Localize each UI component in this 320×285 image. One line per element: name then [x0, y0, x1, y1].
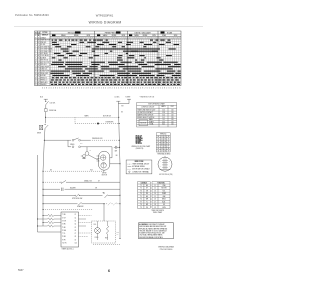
timer block [61, 212, 79, 247]
svg-text:T5: T5 [140, 196, 142, 198]
svg-text:Publication No. 5995418493: Publication No. 5995418493 [15, 13, 49, 17]
timer terminal table right [152, 182, 170, 209]
svg-text:CAP.: CAP. [163, 195, 167, 198]
svg-text:7: 7 [88, 38, 89, 40]
svg-text:9.8: 9.8 [163, 119, 165, 121]
svg-text:WIRING DIAGRAM: WIRING DIAGRAM [158, 245, 174, 248]
svg-text:6: 6 [136, 88, 137, 90]
svg-text:4: 4 [59, 38, 60, 40]
svg-text:WH: WH [121, 106, 123, 108]
svg-text:5: 5 [35, 49, 36, 51]
timer cam closure bars [50, 40, 181, 85]
svg-text:WIRE CODE: WIRE CODE [135, 161, 144, 163]
svg-text:B: B [38, 75, 39, 77]
svg-text:T2 GY: T2 GY [62, 217, 66, 219]
svg-text:2: 2 [166, 88, 167, 90]
svg-text:27: 27 [164, 148, 166, 150]
svg-text:0: 0 [160, 38, 161, 40]
svg-text:GY: GY [146, 188, 148, 190]
svg-text:16: 16 [161, 148, 163, 150]
svg-text:SPIN: SPIN [162, 207, 165, 209]
svg-text:5: 5 [62, 38, 63, 40]
svg-text:B: B [38, 84, 39, 86]
svg-text:T1: T1 [140, 185, 142, 187]
svg-text:2: 2 [112, 88, 113, 90]
svg-text:SPEED SELECT SWITCH: SPEED SELECT SWITCH [137, 117, 154, 119]
svg-text:4: 4 [129, 88, 130, 90]
svg-text:WTR TEMP COLD: WTR TEMP COLD [40, 51, 51, 53]
svg-text:WIRING COLOR CODE CHART: WIRING COLOR CODE CHART [132, 145, 151, 148]
svg-text:6: 6 [179, 88, 180, 90]
svg-text:B: B [38, 66, 39, 68]
svg-text:SPIN: SPIN [87, 35, 91, 37]
svg-text:FUNCTION: FUNCTION [158, 183, 165, 185]
svg-text:6: 6 [147, 88, 148, 90]
svg-text:WTR TEMP HOT: WTR TEMP HOT [40, 46, 51, 48]
svg-text:14: 14 [154, 193, 156, 195]
svg-text:1: 1 [75, 38, 76, 40]
svg-text:C1: C1 [75, 214, 77, 216]
pressure switch line [44, 139, 71, 141]
svg-text:BK: BK [146, 196, 148, 198]
motor plug circle [158, 157, 172, 171]
svg-text:22: 22 [164, 136, 166, 138]
svg-text:12: 12 [35, 64, 37, 66]
svg-text:68: 68 [164, 151, 166, 153]
svg-text:1: 1 [35, 40, 36, 42]
svg-text:WASH: WASH [61, 34, 65, 37]
svg-text:PRESSURE SW.: PRESSURE SW. [92, 138, 103, 140]
timer motor line [74, 117, 76, 123]
svg-text:T7: T7 [140, 201, 142, 203]
svg-text:TERM. BD.: TERM. BD. [160, 134, 167, 136]
svg-text:RINSE: RINSE [74, 35, 79, 37]
svg-text:26.4: 26.4 [162, 121, 165, 123]
svg-text:2: 2 [35, 42, 36, 44]
svg-text:RINSE: RINSE [143, 35, 148, 37]
svg-text:4: 4 [96, 88, 97, 90]
svg-text:C10: C10 [75, 243, 78, 245]
svg-text:TIMER MOTOR: TIMER MOTOR [40, 40, 50, 42]
svg-text:SPD: SPD [80, 143, 83, 145]
svg-text:* TIMER MOTOR ON: * TIMER MOTOR ON [139, 96, 155, 98]
cycle header labels [35, 31, 173, 39]
svg-text:4: 4 [64, 88, 65, 90]
svg-text:TIMER: TIMER [84, 115, 88, 117]
svg-text:RINSE: RINSE [112, 35, 117, 37]
motor lead terminals [97, 156, 100, 161]
svg-text:SPIN SOL.: SPIN SOL. [40, 64, 47, 66]
svg-text:T8 BR: T8 BR [62, 236, 66, 238]
svg-text:CONTACT: CONTACT [141, 182, 148, 185]
svg-text:9: 9 [92, 38, 93, 40]
svg-text:120: 120 [171, 119, 174, 121]
svg-text:T9 PK: T9 PK [62, 239, 66, 241]
svg-text:97: 97 [168, 146, 170, 148]
svg-text:T3: T3 [140, 190, 142, 192]
wire row 6 (aux dashed) [43, 209, 93, 211]
svg-text:BK: BK [121, 112, 123, 114]
svg-text:AL WARNING: DISCONNECT POWER A: AL WARNING: DISCONNECT POWER AT [139, 223, 164, 226]
svg-text:2: 2 [77, 38, 78, 40]
svg-text:0: 0 [51, 88, 52, 90]
svg-text:15.0: 15.0 [162, 110, 165, 112]
svg-text:0: 0 [94, 38, 95, 40]
svg-text:63: 63 [164, 139, 166, 141]
svg-text:D: D [38, 71, 39, 73]
svg-text:11: 11 [154, 185, 156, 187]
svg-text:4: 4 [169, 38, 170, 40]
svg-text:T4: T4 [140, 193, 142, 195]
svg-text:AUX.: AUX. [162, 200, 166, 203]
svg-text:CYCLE: CYCLE [42, 32, 47, 34]
svg-text:T6 WH: T6 WH [62, 230, 66, 232]
svg-text:2: 2 [55, 38, 56, 40]
terminal board table [156, 133, 170, 152]
svg-text:6: 6 [86, 38, 87, 40]
svg-text:SPIN: SPIN [121, 35, 125, 37]
svg-text:2: 2 [68, 88, 69, 90]
svg-text:T9: T9 [140, 207, 142, 209]
svg-text:C3: C3 [75, 221, 77, 223]
svg-text:SPEED: SPEED [70, 144, 74, 146]
svg-text:18: 18 [154, 204, 156, 206]
timer contact dashed line (top) [46, 116, 119, 118]
svg-text:75: 75 [161, 146, 163, 148]
lid switch [46, 101, 49, 104]
svg-text:3: 3 [57, 38, 58, 40]
svg-text:CONTROL CIRCUIT: CONTROL CIRCUIT [141, 107, 154, 109]
svg-text:8: 8 [77, 88, 78, 90]
svg-text:4: 4 [103, 38, 104, 40]
switch rating chart table [137, 103, 177, 128]
svg-text:19: 19 [35, 80, 37, 82]
svg-text:5: 5 [171, 38, 172, 40]
svg-text:6: 6 [151, 38, 152, 40]
svg-text:6: 6 [169, 88, 170, 90]
svg-text:18: 18 [35, 77, 37, 79]
svg-text:14: 14 [35, 69, 37, 71]
svg-text:B: B [38, 42, 39, 44]
svg-text:C: C [38, 51, 39, 53]
svg-text:SPIN: SPIN [174, 35, 178, 37]
svg-text:19: 19 [154, 207, 156, 209]
svg-text:OR: OR [95, 187, 97, 189]
svg-text:WIRING DIAGRAM: WIRING DIAGRAM [89, 20, 122, 24]
svg-text:5: 5 [127, 38, 128, 40]
svg-text:T6: T6 [140, 199, 142, 201]
svg-text:2: 2 [142, 38, 143, 40]
svg-text:D: D [38, 53, 39, 55]
svg-text:12: 12 [154, 188, 156, 190]
svg-text:SOAK: SOAK [167, 31, 173, 34]
svg-text:0: 0 [116, 88, 117, 90]
svg-text:(SEE NOTE): (SEE NOTE) [136, 148, 144, 150]
svg-text:MOTOR CW: MOTOR CW [40, 60, 48, 62]
svg-text:FUSE 10A: FUSE 10A [49, 109, 56, 112]
svg-text:36.2: 36.2 [162, 123, 165, 125]
svg-text:4: 4 [147, 38, 148, 40]
svg-text:WH WHITE: WH WHITE [136, 143, 143, 145]
svg-text:8: 8 [131, 88, 132, 90]
svg-text:WL: WL [103, 193, 105, 195]
svg-text:8: 8 [164, 88, 165, 90]
svg-text:N WHT: N WHT [126, 97, 131, 99]
svg-text:2: 2 [177, 88, 178, 90]
svg-text:6: 6 [81, 88, 82, 90]
svg-text:MOTOR: MOTOR [102, 174, 107, 176]
svg-text:0: 0 [94, 88, 95, 90]
svg-text:9: 9 [136, 38, 137, 40]
circuit breaker on L1 rail [45, 125, 48, 128]
svg-text:9: 9 [114, 38, 115, 40]
svg-text:8: 8 [90, 38, 91, 40]
svg-text:10.4: 10.4 [162, 115, 165, 117]
svg-text:0: 0 [138, 38, 139, 40]
svg-text:D: D [38, 62, 39, 64]
svg-text:MOTOR: MOTOR [162, 188, 167, 190]
svg-text:74: 74 [168, 139, 170, 141]
svg-text:TIMER (60 INC.): TIMER (60 INC.) [62, 249, 74, 251]
svg-text:3: 3 [145, 38, 146, 40]
svg-text:5: 5 [149, 38, 150, 40]
svg-text:LID SW.: LID SW. [40, 44, 46, 46]
svg-text:TIMER SEQUENCE: TIMER SEQUENCE [151, 210, 164, 212]
valve bottom wire [93, 243, 120, 245]
svg-text:BRKR: BRKR [37, 132, 41, 134]
svg-text:3: 3 [123, 38, 124, 40]
svg-text:3: 3 [160, 166, 161, 168]
svg-text:RINSE DISP.: RINSE DISP. [40, 73, 48, 75]
svg-text:T2: T2 [140, 188, 142, 190]
warning box [139, 223, 174, 239]
sub header labels [61, 34, 177, 37]
svg-text:5: 5 [105, 38, 106, 40]
svg-text:2: 2 [155, 88, 156, 90]
wire row 4 (water level switch) [43, 194, 120, 196]
svg-text:0: 0 [73, 38, 74, 40]
wire row 2 (unbalance switch) [43, 181, 61, 183]
svg-text:15: 15 [154, 196, 156, 198]
svg-text:SOAK SW.: SOAK SW. [77, 205, 84, 208]
svg-text:4: 4 [75, 88, 76, 90]
svg-text:9: 9 [35, 57, 36, 59]
svg-text:M.: M. [38, 35, 40, 37]
svg-text:BUZZER: BUZZER [40, 75, 45, 77]
svg-text:120: 120 [171, 123, 174, 125]
chart fine vertical grid [52, 37, 179, 86]
svg-text:WH: WH [146, 199, 148, 201]
svg-text:SPIN: SPIN [152, 35, 156, 37]
svg-text:2: 2 [57, 88, 58, 90]
svg-text:BK: BK [50, 169, 52, 171]
svg-text:CAP: CAP [115, 149, 118, 152]
svg-text:4: 4 [125, 38, 126, 40]
svg-text:OR: OR [146, 190, 148, 192]
svg-text:04: 04 [164, 141, 166, 143]
svg-text:120: 120 [171, 112, 174, 114]
schematic wires and rails [38, 99, 132, 238]
svg-text:BR: BR [146, 204, 148, 206]
svg-text:C: C [38, 69, 39, 71]
svg-text:IN: IN [35, 32, 36, 34]
svg-text:8: 8 [134, 38, 135, 40]
capacitor on N rail [114, 146, 120, 148]
svg-text:1: 1 [162, 38, 163, 40]
svg-text:N: N [35, 37, 36, 39]
svg-text:2: 2 [99, 38, 100, 40]
svg-text:4: 4 [151, 88, 152, 90]
hot solenoid coil [107, 226, 109, 235]
svg-text:6: 6 [108, 38, 109, 40]
wire row 5 (valve feed) [43, 204, 104, 221]
svg-text:4: 4 [118, 88, 119, 90]
svg-text:7: 7 [35, 53, 36, 55]
drive motor [99, 151, 110, 170]
svg-text:T1 BU: T1 BU [62, 214, 66, 216]
svg-text:12.8: 12.8 [162, 112, 165, 114]
svg-text:WASH: WASH [103, 34, 107, 37]
svg-text:4: 4 [140, 88, 141, 90]
svg-text:6: 6 [35, 51, 36, 53]
header dark marks [52, 32, 165, 37]
svg-text:7: 7 [66, 38, 67, 40]
svg-text:LINE: LINE [163, 185, 166, 187]
svg-text:HOT: HOT [105, 238, 108, 240]
svg-text:120: 120 [171, 117, 174, 119]
svg-text:LID: LID [163, 204, 165, 206]
svg-text:C4: C4 [75, 224, 77, 226]
svg-text:8: 8 [68, 38, 69, 40]
svg-text:LID SW.: LID SW. [50, 103, 56, 105]
timer sequence chart table [35, 31, 182, 86]
timer terminal table left [138, 182, 151, 209]
svg-text:0: 0 [72, 88, 73, 90]
svg-text:64: 64 [158, 146, 160, 148]
svg-text:120: 120 [171, 115, 174, 117]
svg-text:COLD: COLD [95, 237, 99, 239]
degree scale under chart [42, 88, 181, 90]
svg-text:79: 79 [168, 151, 170, 153]
svg-text:2: 2 [134, 88, 135, 90]
svg-text:6: 6 [173, 38, 174, 40]
svg-text:8: 8 [46, 88, 47, 90]
svg-text:4: 4 [35, 46, 36, 48]
svg-text:BLK: BLK [40, 97, 43, 99]
svg-text:11: 11 [35, 62, 37, 64]
svg-text:82: 82 [158, 141, 160, 143]
svg-text:TIMER MTR.: TIMER MTR. [106, 122, 115, 124]
svg-text:16: 16 [35, 73, 37, 75]
svg-text:6: 6 [114, 88, 115, 90]
svg-text:MOTOR PLUG (TM): MOTOR PLUG (TM) [159, 174, 173, 176]
svg-text:8: 8 [110, 88, 111, 90]
svg-text:7: 7 [132, 38, 133, 40]
svg-text:BUZZER: BUZZER [70, 187, 76, 189]
svg-text:PK: PK [146, 207, 148, 209]
svg-text:SOL.: SOL. [94, 224, 98, 226]
svg-text:8: 8 [35, 55, 36, 57]
svg-text:4: 4 [107, 88, 108, 90]
svg-text:20: 20 [35, 82, 37, 84]
svg-text:6: 6 [70, 88, 71, 90]
svg-text:MOTOR CCW: MOTOR CCW [40, 62, 49, 64]
svg-text:2: 2 [145, 88, 146, 90]
svg-text:52: 52 [161, 139, 163, 141]
svg-text:120: 120 [171, 110, 174, 112]
svg-text:1: 1 [118, 38, 119, 40]
svg-text:45: 45 [164, 143, 166, 145]
svg-text:17: 17 [154, 201, 156, 203]
svg-text:L1 BLK: L1 BLK [115, 97, 120, 99]
svg-text:57: 57 [161, 151, 163, 153]
svg-text:T10 TN: T10 TN [62, 243, 66, 245]
svg-text:BU: BU [116, 155, 118, 157]
svg-text:6: 6 [158, 88, 159, 90]
svg-text:T3 OR: T3 OR [62, 221, 66, 223]
svg-text:6: 6 [92, 88, 93, 90]
svg-text:13: 13 [35, 66, 37, 68]
svg-text:WTF6020FW1: WTF6020FW1 [96, 13, 114, 17]
svg-text:C: C [38, 77, 39, 79]
timer left stubs with connectors [38, 214, 62, 227]
svg-text:2: 2 [164, 38, 165, 40]
svg-text:0: 0 [83, 88, 84, 90]
svg-text:C5: C5 [75, 227, 77, 229]
svg-text:8: 8 [55, 88, 56, 90]
motor start switch [86, 147, 88, 152]
svg-text:0: 0 [149, 88, 150, 90]
svg-text:9: 9 [158, 38, 159, 40]
svg-text:C2: C2 [75, 217, 77, 219]
svg-text:6: 6 [59, 88, 60, 90]
svg-text:6: 6 [103, 88, 104, 90]
svg-text:7: 7 [153, 38, 154, 40]
timer right stubs [79, 216, 92, 237]
svg-text:7: 7 [175, 38, 176, 40]
svg-text:6: 6 [108, 269, 110, 273]
svg-text:46: 46 [158, 151, 160, 153]
svg-text:TUB: TUB [90, 169, 93, 171]
svg-text:MOTOR SW.: MOTOR SW. [103, 115, 112, 117]
svg-text:86: 86 [164, 146, 166, 148]
color code list [132, 135, 151, 151]
svg-text:C6: C6 [75, 230, 77, 232]
svg-text:0: 0 [127, 88, 128, 90]
svg-text:DRIVE: DRIVE [102, 172, 106, 174]
svg-text:0: 0 [138, 88, 139, 90]
svg-text:0: 0 [116, 38, 117, 40]
svg-text:CA: CA [38, 31, 40, 34]
svg-text:2: 2 [90, 88, 91, 90]
svg-text:3: 3 [79, 38, 80, 40]
svg-text:LINE SW.: LINE SW. [40, 42, 46, 44]
svg-text:AC: AC [164, 169, 166, 172]
svg-text:C8: C8 [75, 236, 77, 238]
svg-text:SPEED LO: SPEED LO [40, 80, 47, 82]
fuse [45, 109, 48, 112]
svg-text:1: 1 [140, 38, 141, 40]
wire to motor top [81, 147, 113, 158]
svg-text:WTR: WTR [116, 232, 119, 234]
svg-text:34: 34 [161, 143, 163, 145]
svg-text:8: 8 [99, 88, 100, 90]
svg-text:T5 BK: T5 BK [62, 227, 66, 229]
svg-text:YL: YL [146, 201, 148, 203]
svg-text:1: 1 [97, 38, 98, 40]
svg-text:2: 2 [169, 161, 170, 163]
svg-text:GY: GY [98, 180, 100, 182]
